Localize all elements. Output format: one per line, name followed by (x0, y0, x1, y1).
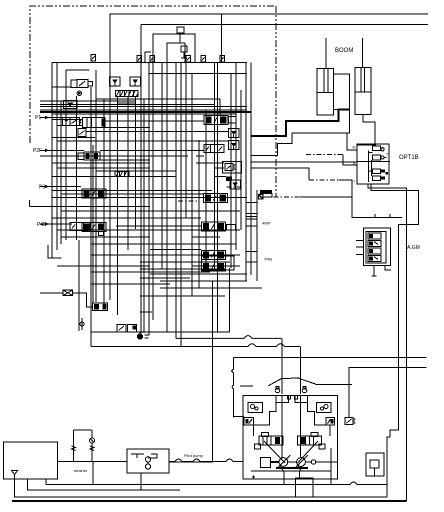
wire (40, 149, 84, 151)
wire (250, 62, 252, 275)
top sub box left with gauge circles (248, 402, 263, 412)
valve RA (204, 116, 228, 125)
wire (60, 102, 62, 244)
svg-text:P4B: P4B (265, 257, 273, 262)
wire (109, 160, 111, 300)
short dash-dot pilot segments inside block (178, 200, 198, 202)
wire (95, 70, 97, 302)
valve RC (203, 194, 227, 203)
wire (96, 170, 176, 172)
wire (91, 243, 236, 245)
wire (140, 295, 225, 297)
wire (198, 140, 200, 288)
wire (66, 69, 90, 71)
dashdot pilot to A.GM (309, 179, 339, 181)
wire (150, 273, 247, 275)
wire (52, 176, 176, 178)
valve V5 spool (83, 117, 106, 127)
wire (52, 119, 83, 121)
right side dark bar (260, 190, 272, 194)
wire (105, 127, 150, 129)
boom thick supply line (251, 109, 350, 136)
pump top side lines (240, 385, 253, 387)
tiny ports along top edge (91, 55, 96, 62)
travel line upper (234, 357, 427, 359)
pump roof (268, 378, 315, 386)
strainer circuit (72, 430, 95, 462)
wire (52, 190, 212, 192)
wire (40, 100, 135, 102)
svg-text:strainer: strainer (74, 468, 88, 473)
pilot pump box (127, 449, 169, 473)
wire (214, 62, 216, 271)
wire (61, 210, 240, 212)
dark node (226, 177, 232, 181)
wire (57, 167, 150, 169)
wire (28, 479, 180, 490)
bottom return lines (92, 462, 94, 485)
wire (227, 186, 241, 188)
thick link box to pump (270, 461, 279, 463)
right pilot valve outside pump (345, 418, 356, 425)
rail ties (246, 202, 257, 262)
wire top long line 2 (141, 24, 428, 26)
svg-text:P1: P1 (35, 115, 41, 121)
wire (135, 96, 137, 229)
wire (40, 292, 63, 294)
pilot box C top center (153, 34, 195, 62)
wire (40, 155, 188, 157)
block top edge (52, 61, 247, 63)
pump port U glyphs (288, 396, 298, 399)
wire (40, 223, 72, 225)
valve RB (204, 145, 224, 153)
A.GM top pilot line (365, 214, 402, 218)
left regulator spool (255, 433, 283, 450)
pump circles (277, 455, 308, 469)
line to OPT1B M (347, 133, 357, 150)
wire (166, 62, 168, 332)
valve RD (201, 222, 225, 231)
boundary exit line P2F (29, 200, 31, 206)
OPT1B internals (353, 145, 391, 185)
wire (61, 236, 150, 238)
pump riser left (281, 338, 283, 394)
wire (140, 311, 152, 313)
wire (316, 383, 352, 385)
small box left of pumps (260, 458, 270, 468)
valve V2 check box (64, 101, 78, 109)
travel line lower (349, 367, 427, 417)
wire (92, 145, 94, 303)
wire (192, 236, 220, 238)
wire (96, 99, 220, 116)
wire (160, 287, 262, 289)
svg-text:P3: P3 (39, 185, 45, 191)
wire (169, 459, 213, 462)
wire (91, 254, 240, 256)
wire (40, 186, 81, 188)
svg-text:4WP: 4WP (262, 221, 271, 226)
wire (152, 62, 154, 320)
funnel profile right (308, 402, 330, 436)
valve V6 (78, 152, 100, 160)
wire (57, 140, 228, 142)
wire (30, 205, 151, 207)
boxed relief unit (222, 162, 241, 174)
jog on x398 line (387, 426, 399, 497)
boom rod side line (363, 114, 375, 144)
bottom drops (283, 471, 285, 485)
suction line (58, 461, 127, 463)
wire (65, 70, 67, 240)
wire (40, 104, 214, 106)
wire (98, 232, 103, 236)
boom center manifold (334, 74, 350, 110)
wire (96, 159, 150, 161)
pilot rect right of block (251, 168, 309, 180)
wire (240, 90, 242, 230)
valve V4 (70, 117, 81, 125)
wire (215, 176, 226, 178)
right inline pilot valve (326, 418, 335, 426)
wire (45, 479, 47, 484)
filter return line (91, 331, 229, 333)
wire (140, 277, 190, 279)
wire (150, 249, 201, 251)
drain filter box below pump (296, 478, 314, 497)
right port circle (305, 460, 337, 464)
crosshatch manifold 2 (115, 171, 129, 176)
A.GM drain (385, 266, 391, 271)
wire (81, 318, 83, 330)
wire (91, 283, 170, 285)
check RB (229, 141, 240, 150)
riser to pilot pump (169, 281, 213, 462)
wire (191, 74, 193, 296)
svg-text:Pilot pump: Pilot pump (184, 453, 204, 458)
suction V marks (280, 466, 301, 471)
wire (116, 225, 201, 227)
pump bottom line (251, 470, 331, 472)
crosshatch manifold 1 (115, 90, 138, 96)
side box RA (229, 117, 237, 124)
valve V9 (93, 303, 108, 310)
wire (180, 62, 182, 346)
box under bar (260, 194, 272, 198)
valve V3 (62, 117, 70, 125)
circle under V1 (77, 91, 81, 95)
wire corner left rail end (48, 245, 62, 258)
wire (299, 396, 301, 458)
wire (118, 102, 136, 104)
valve RF body outline (201, 256, 233, 270)
wire (235, 62, 237, 250)
block right rails (245, 62, 247, 281)
svg-text:P4B: P4B (37, 222, 47, 228)
solenoid box on top (177, 27, 184, 33)
swash control arms (264, 441, 285, 463)
corner glyph left of box C (145, 52, 151, 62)
wire (40, 117, 62, 119)
wire (299, 471, 301, 478)
left inline pilot valve (244, 418, 254, 426)
X box bottom left (63, 290, 73, 296)
check RA (229, 129, 240, 138)
wire (91, 271, 210, 273)
wire (205, 110, 207, 270)
solid pilot line into OPT1B (251, 161, 357, 163)
wire (161, 62, 163, 268)
wire (15, 475, 388, 498)
wire (220, 56, 225, 63)
wire (103, 99, 105, 304)
left internal rails (56, 62, 58, 250)
solenoid stem (179, 33, 181, 43)
wire (215, 167, 224, 169)
pump inner right rail (330, 448, 332, 485)
pilot box C inner (167, 43, 185, 62)
pump feed line A (176, 336, 282, 339)
valve RE (201, 251, 225, 260)
tiny valve in box C (181, 46, 187, 58)
wire drop from top line (221, 14, 223, 62)
svg-text:BOOM: BOOM (335, 48, 353, 54)
boom cylinder left (317, 38, 333, 115)
wire (216, 62, 218, 332)
boom cylinder right (355, 38, 371, 114)
left inlet line (234, 416, 245, 418)
wire (57, 229, 240, 231)
wire (339, 180, 352, 197)
wire (40, 106, 247, 108)
tick mark (252, 476, 255, 479)
regulator drop with jogs (231, 358, 233, 418)
wire (86, 131, 229, 133)
port stub arrows (45, 116, 49, 226)
wire (76, 96, 78, 240)
top sub box right with gauge circles (317, 402, 332, 412)
wire (143, 99, 145, 333)
valve V1 (71, 80, 93, 88)
wire (175, 62, 177, 338)
bottom pair boxes (117, 325, 137, 332)
wire (185, 62, 187, 218)
outer right rail (256, 190, 258, 281)
machine boundary dash-dot (30, 6, 275, 143)
wire (52, 197, 247, 199)
A.GM drain tick (372, 266, 377, 277)
valve V8 (82, 223, 106, 232)
wire (57, 265, 150, 267)
funnel profile left (254, 402, 277, 436)
pump riser right (299, 347, 301, 395)
suction collar boxes (276, 396, 288, 403)
lower dashdot (263, 196, 300, 198)
wire (192, 265, 240, 267)
wire (52, 137, 95, 139)
wire (61, 193, 203, 195)
svg-text:P2F: P2F (33, 148, 42, 154)
wire (40, 109, 247, 111)
filter glyph (137, 332, 148, 339)
wire (73, 293, 93, 307)
wire (105, 120, 204, 122)
svg-text:M: M (353, 146, 356, 150)
box below V5 (78, 129, 86, 137)
A.GM feed from pilot (352, 197, 365, 218)
wire (40, 111, 251, 113)
boom return line (251, 110, 349, 156)
wire (186, 56, 191, 63)
OPT1B outlet line 1 (368, 184, 407, 501)
wire (100, 149, 204, 151)
wire (52, 113, 236, 115)
pilot dashdot to OPT1B A (306, 153, 343, 155)
wire (127, 96, 129, 250)
pump bottom thick line (276, 467, 308, 469)
wire (78, 240, 80, 331)
wire (201, 56, 206, 63)
wire (90, 87, 92, 347)
wire (46, 482, 387, 485)
wire (343, 154, 357, 165)
wire (117, 96, 119, 315)
check pair (110, 77, 121, 86)
block second top line (149, 73, 247, 75)
wire (213, 459, 244, 462)
wire (196, 162, 224, 164)
tiny X box at dashdot start (259, 195, 264, 200)
center column risers (281, 396, 283, 458)
side box RD (227, 225, 236, 231)
wire (300, 196, 352, 198)
wire (298, 441, 319, 463)
machine boundary dash-dot right vertical (275, 6, 277, 197)
wire (80, 322, 84, 326)
OPT1B outlet line 2 (371, 184, 419, 426)
valve RF (201, 262, 225, 271)
wire (160, 280, 247, 282)
wire top long line 1 (110, 14, 428, 160)
wire (295, 396, 307, 403)
wire (150, 56, 155, 63)
wire (230, 74, 232, 268)
wire (228, 268, 230, 332)
pilot box drain (140, 473, 142, 490)
pump feed line B (91, 344, 300, 347)
check RC (230, 180, 241, 189)
valve V8 left part (70, 223, 90, 231)
svg-text:OPT1B: OPT1B (399, 155, 419, 161)
wire (137, 56, 142, 63)
wire (148, 62, 150, 335)
block left edge (51, 62, 53, 258)
wire (140, 25, 142, 334)
wire (130, 77, 141, 86)
wire (57, 124, 82, 126)
wire (12, 500, 407, 502)
B port circles (275, 387, 307, 393)
wire (140, 268, 225, 270)
valve V7 (82, 189, 106, 198)
right regulator spool (298, 433, 326, 450)
svg-text:A.GM: A.GM (407, 245, 420, 251)
pilot relief box right (366, 453, 384, 476)
wire (196, 155, 204, 157)
wire (52, 217, 201, 219)
wire (140, 261, 230, 263)
wire (52, 162, 150, 164)
